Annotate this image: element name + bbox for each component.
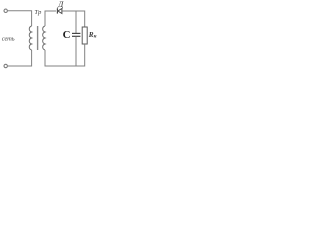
wire: bottom-left rail from primary — [8, 50, 32, 66]
diode D — [56, 8, 58, 13]
wire: top-left rail to primary — [8, 11, 32, 26]
svg-text:Тр: Тр — [34, 9, 42, 16]
wire: capacitor bottom lead — [75, 37, 77, 66]
background — [0, 0, 117, 82]
terminal (input, top-left) — [4, 9, 7, 12]
resistor Rn body — [82, 27, 87, 44]
svg-text:сеть: сеть — [2, 35, 15, 42]
transformer T primary winding — [29, 26, 31, 50]
svg-text:C: C — [63, 29, 71, 41]
wire: resistor bottom lead and bottom rail to secondary — [45, 44, 85, 66]
capacitor C plates — [72, 32, 80, 34]
wire: capacitor top lead — [75, 11, 77, 33]
wire: diode to top-right corner, down to resistor — [62, 11, 84, 27]
transformer core — [37, 26, 39, 50]
svg-text:Д: Д — [57, 0, 64, 9]
wire: secondary top to diode — [45, 11, 56, 26]
terminal (input, bottom-left) — [4, 64, 7, 67]
transformer T secondary winding — [43, 26, 45, 50]
